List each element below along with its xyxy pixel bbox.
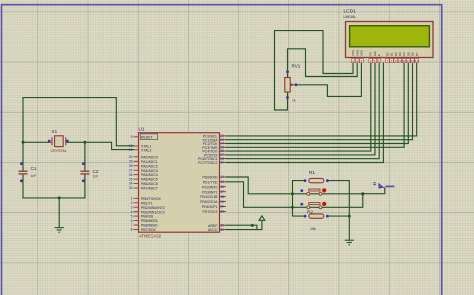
LCD pin VEE (3) — [360, 50, 364, 63]
pin PB2/AIN0/INT2 (3) — [131, 205, 165, 209]
svg-text:7: 7 — [131, 223, 133, 227]
svg-text:32: 32 — [220, 223, 224, 227]
svg-text:PA1/ADC1: PA1/ADC1 — [141, 160, 158, 164]
svg-text:9: 9 — [131, 135, 133, 139]
svg-text:PA4/ADC4: PA4/ADC4 — [141, 173, 158, 177]
svg-text:29: 29 — [220, 161, 224, 165]
svg-text:2: 2 — [131, 201, 133, 205]
pin PB7/SCK (8) — [131, 228, 157, 232]
wire: right rail to ground — [348, 181, 350, 241]
junction: crystal-left rail — [22, 141, 25, 144]
wire PC5 to LCD RW — [226, 63, 375, 155]
junction: AREF — [251, 224, 254, 227]
pin RESET (9) — [131, 134, 158, 140]
svg-text:3: 3 — [131, 205, 133, 209]
pin AVCC (30) — [208, 228, 226, 232]
pin PA1/ADC1 (39) — [129, 160, 158, 164]
svg-text:11: 11 — [402, 59, 405, 63]
svg-text:7: 7 — [386, 59, 388, 63]
svg-text:PD3/INT1: PD3/INT1 — [202, 190, 217, 194]
pin PA0/ADC0 (40) — [129, 155, 158, 159]
svg-text:12: 12 — [129, 148, 133, 152]
svg-text:5: 5 — [131, 214, 133, 218]
ground (button network) — [345, 240, 354, 245]
svg-text:19: 19 — [220, 200, 224, 204]
wire: blue switch lead — [363, 188, 385, 194]
svg-text:16: 16 — [220, 185, 224, 189]
svg-text:PD4/OC1B: PD4/OC1B — [200, 195, 218, 199]
wire: crystal net to XTAL2 — [23, 142, 134, 149]
svg-text:20: 20 — [220, 205, 224, 209]
svg-text:PB2/AIN0/INT2: PB2/AIN0/INT2 — [141, 206, 165, 210]
push button 1 — [300, 188, 326, 195]
svg-text:PA6/ADC6: PA6/ADC6 — [141, 182, 158, 186]
wire: R2 right stub — [327, 215, 349, 217]
svg-text:PD7/OC2: PD7/OC2 — [203, 210, 218, 214]
svg-text:14: 14 — [220, 175, 224, 179]
junction: R2 right — [348, 215, 351, 218]
crystal X1 — [48, 136, 69, 147]
svg-text:D7: D7 — [415, 52, 419, 56]
wire: LCD VSS to RV1 bottom — [275, 31, 354, 110]
svg-text:PD2/INT0: PD2/INT0 — [202, 185, 217, 189]
wire: AREF — [226, 225, 257, 229]
svg-text:C2: C2 — [93, 169, 99, 174]
LCD LCD1 body — [346, 22, 434, 58]
interactive switch (blue) — [373, 183, 394, 189]
LCD pin D3 (10) — [398, 52, 402, 63]
svg-text:4: 4 — [370, 59, 372, 63]
svg-text:LM016L: LM016L — [344, 15, 357, 19]
svg-text:10k: 10k — [310, 227, 316, 231]
svg-text:R2: R2 — [307, 210, 313, 215]
pin PB1/T1 (2) — [131, 201, 153, 205]
pin PD3/INT1 (17) — [202, 190, 226, 194]
pin PA7/ADC7 (33) — [129, 186, 158, 190]
wire PC7 to LCD X — [226, 63, 383, 163]
LCD pin E (6) — [377, 54, 381, 63]
svg-text:1nF: 1nF — [31, 174, 37, 178]
op: MCU body U1 — [139, 133, 220, 233]
wire: LCD VDD to RV1 top — [288, 49, 358, 78]
pin PD2/INT0 (16) — [202, 185, 226, 189]
wire: PD0 to button row 1 — [226, 177, 363, 194]
svg-text:PB4/SS: PB4/SS — [141, 215, 154, 219]
svg-text:PB6/MISO: PB6/MISO — [141, 224, 158, 228]
junction: row1 right — [361, 192, 364, 195]
svg-text:12: 12 — [407, 59, 411, 63]
svg-text:1: 1 — [131, 197, 133, 201]
pin PD5/OC1A (19) — [200, 200, 226, 204]
LCD pin RS (4) — [369, 52, 373, 63]
svg-text:R1: R1 — [309, 170, 315, 175]
resistor R2 — [304, 214, 329, 218]
svg-text:38: 38 — [129, 164, 133, 168]
wire: left vertical rail through C1 — [22, 98, 24, 198]
svg-text:5: 5 — [374, 59, 376, 63]
svg-text:3: 3 — [361, 59, 363, 63]
svg-text:4: 4 — [131, 210, 133, 214]
pin PC3/TMS (25) — [202, 145, 226, 149]
LCD pin D2 (9) — [394, 52, 398, 63]
pin PA5/ADC5 (35) — [129, 177, 158, 181]
pin PA3/ADC3 (37) — [129, 168, 158, 172]
svg-text:PB3/AIN1/OC0: PB3/AIN1/OC0 — [141, 210, 165, 214]
junction: C2 top — [83, 141, 86, 144]
pin PC7/TOSC2 (29) — [198, 161, 226, 165]
svg-text:30: 30 — [220, 228, 224, 232]
svg-text:34: 34 — [129, 182, 133, 186]
pin AREF (32) — [208, 223, 226, 227]
svg-text:17: 17 — [220, 190, 224, 194]
svg-text:6: 6 — [378, 59, 380, 63]
pin PD1/TXD (15) — [203, 180, 226, 184]
pin PA2/ADC2 (38) — [129, 164, 158, 168]
wire PC4 to LCD RS — [226, 63, 371, 151]
svg-text:PD6/ICP1: PD6/ICP1 — [202, 205, 218, 209]
LCD pin D0 (7) — [385, 52, 389, 63]
pin PB6/MISO (7) — [131, 223, 158, 227]
svg-text:PA0/ADC0: PA0/ADC0 — [141, 155, 158, 159]
svg-text:X1: X1 — [52, 129, 58, 134]
potentiometer RV1 — [285, 70, 298, 99]
svg-text:18: 18 — [220, 195, 224, 199]
LCD pin D5 (12) — [406, 52, 410, 63]
svg-text:PD5/OC1A: PD5/OC1A — [200, 200, 218, 204]
wire: R1 right stub — [327, 180, 349, 182]
svg-text:1: 1 — [352, 59, 354, 63]
LCD pin D4 (11) — [402, 52, 406, 63]
svg-text:PB1/T1: PB1/T1 — [141, 201, 153, 205]
wire: AVCC to VCC — [226, 220, 262, 229]
capacitor C2 — [80, 162, 89, 182]
svg-text:AVCC: AVCC — [208, 228, 218, 232]
pin PA4/ADC4 (36) — [129, 173, 158, 177]
svg-text:LCD1: LCD1 — [344, 9, 357, 15]
svg-text:9: 9 — [395, 59, 397, 63]
capacitor C1 — [19, 162, 28, 182]
svg-text:PA3/ADC3: PA3/ADC3 — [141, 169, 158, 173]
svg-text:U1: U1 — [139, 127, 145, 132]
svg-text:10: 10 — [398, 59, 402, 63]
pin PD7/OC2 (21) — [203, 210, 226, 214]
svg-text:15: 15 — [220, 180, 224, 184]
svg-text:39: 39 — [129, 160, 133, 164]
svg-text:RV1: RV1 — [292, 64, 301, 69]
junction: ground split — [58, 196, 61, 199]
wire: top loop from C1 rail to XTAL1 — [23, 98, 134, 146]
svg-text:PB5/MOSI: PB5/MOSI — [141, 219, 158, 223]
svg-text:8: 8 — [391, 59, 393, 63]
svg-text:PA7/ADC7: PA7/ADC7 — [141, 187, 158, 191]
pin PB4/SS (5) — [131, 214, 154, 218]
svg-text:14: 14 — [415, 59, 419, 63]
resistor R1 — [304, 178, 329, 182]
pin PA6/ADC6 (34) — [129, 182, 158, 186]
LCD pin D6 (13) — [411, 52, 415, 63]
LCD pin D1 (8) — [390, 52, 394, 63]
pin PB3/AIN1/OC0 (4) — [131, 210, 165, 214]
pin PD6/ICP1 (20) — [202, 205, 226, 209]
svg-text:RESET: RESET — [141, 135, 154, 139]
svg-text:PD1/TXD: PD1/TXD — [203, 180, 218, 184]
pin PD0/RXD (14) — [202, 175, 226, 179]
junction: row1 left rail — [291, 192, 294, 195]
svg-text:8: 8 — [131, 228, 133, 232]
svg-text:37: 37 — [129, 168, 133, 172]
svg-text:PA5/ADC5: PA5/ADC5 — [141, 178, 158, 182]
wire PC1 to LCD D6 — [226, 63, 413, 140]
svg-text:1k: 1k — [292, 99, 296, 103]
pin PC1/SDA (23) — [203, 138, 226, 142]
LCD pin VSS (1) — [351, 50, 355, 63]
wire: C2 branch — [84, 142, 86, 198]
svg-text:1nF: 1nF — [93, 174, 99, 178]
svg-text:36: 36 — [129, 173, 133, 177]
svg-text:VEE: VEE — [360, 50, 364, 56]
wire: LCD VEE to RV1 wiper — [295, 63, 362, 96]
LCD screen — [350, 26, 430, 47]
pin PD4/OC1B (18) — [200, 195, 226, 199]
wire: PD1 to button row 2 — [226, 182, 363, 208]
svg-text:AREF: AREF — [208, 224, 217, 228]
svg-text:E: E — [377, 54, 381, 56]
pin PC4/TDO (26) — [202, 149, 226, 153]
pin XTAL1 (13) — [129, 144, 152, 148]
pin PB5/MOSI (6) — [131, 219, 158, 223]
junction: row2 left rail — [291, 206, 294, 209]
pin PB0/T0/XCK (1) — [131, 197, 162, 201]
push button 2 — [300, 202, 326, 209]
svg-text:PA2/ADC2: PA2/ADC2 — [141, 164, 158, 168]
pin PC0/SCL (22) — [203, 134, 226, 138]
svg-text:PD0/RXD: PD0/RXD — [202, 176, 218, 180]
svg-text:PB7/SCK: PB7/SCK — [141, 228, 156, 232]
LCD pin VDD (2) — [355, 49, 359, 63]
svg-text:PC7/TOSC2: PC7/TOSC2 — [198, 161, 217, 165]
wire PC3 to LCD D4 — [226, 63, 404, 147]
svg-text:21: 21 — [220, 210, 224, 214]
wire PC0 to LCD D7 — [226, 63, 417, 136]
svg-text:40: 40 — [129, 155, 133, 159]
pin XTAL2 (12) — [129, 148, 152, 152]
svg-text:ATMEGA32: ATMEGA32 — [139, 234, 162, 239]
svg-text:XTAL2: XTAL2 — [141, 148, 151, 152]
pin PC2/TCK (24) — [203, 142, 226, 146]
svg-text:C1: C1 — [31, 166, 37, 171]
wire: bottom rail C1-C2 to ground — [23, 198, 85, 227]
wire PC2 to LCD D5 — [226, 63, 408, 144]
wire PC6 to LCD E — [226, 63, 379, 159]
svg-text:6: 6 — [131, 219, 133, 223]
LCD pin D7 (14) — [415, 52, 419, 63]
ground (crystal capacitors) — [55, 228, 64, 233]
svg-text:13: 13 — [411, 59, 415, 63]
svg-text:33: 33 — [129, 186, 133, 190]
svg-text:PB0/T0/XCK: PB0/T0/XCK — [141, 197, 162, 201]
LCD pin RW (5) — [373, 51, 377, 63]
svg-text:35: 35 — [129, 177, 133, 181]
wire: left rail R1-R2 — [293, 181, 306, 217]
pin PC6/TOSC1 (28) — [198, 157, 226, 161]
pin PC5/TDI (27) — [204, 153, 226, 157]
svg-text:2: 2 — [356, 59, 358, 63]
power terminal VCC — [259, 216, 265, 220]
svg-text:CRYSTAL: CRYSTAL — [51, 149, 67, 153]
